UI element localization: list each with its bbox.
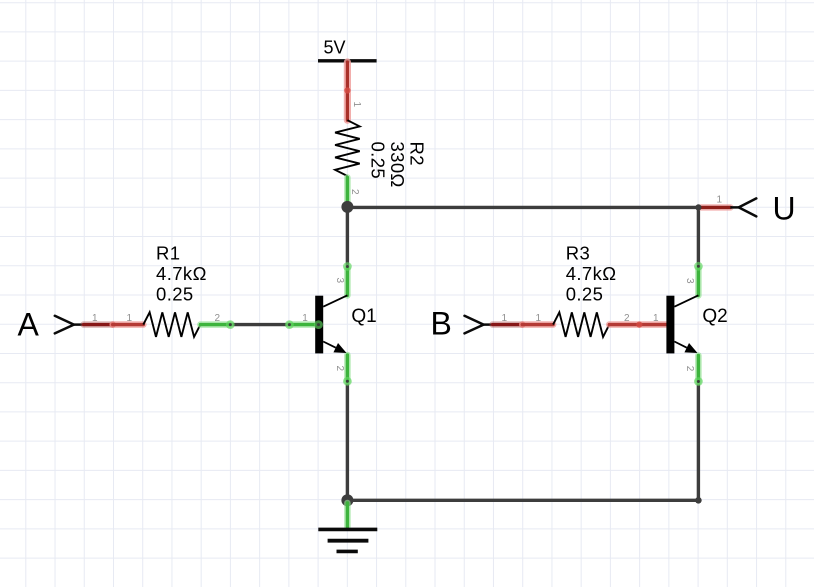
svg-text:1: 1 — [536, 313, 542, 324]
svg-text:U: U — [773, 191, 796, 227]
svg-text:1: 1 — [717, 194, 723, 205]
svg-text:330Ω: 330Ω — [387, 142, 408, 188]
svg-text:R3: R3 — [566, 243, 590, 264]
svg-text:B: B — [431, 306, 452, 342]
svg-text:0.25: 0.25 — [566, 284, 604, 305]
svg-text:A: A — [18, 307, 40, 343]
svg-text:2: 2 — [684, 366, 695, 372]
svg-text:1: 1 — [653, 313, 659, 324]
svg-text:R1: R1 — [156, 243, 180, 264]
svg-text:2: 2 — [334, 366, 345, 372]
svg-text:2: 2 — [349, 189, 360, 195]
svg-text:3: 3 — [684, 278, 695, 284]
svg-text:1: 1 — [92, 313, 98, 324]
svg-text:1: 1 — [127, 313, 133, 324]
svg-text:R2: R2 — [407, 142, 428, 166]
svg-text:2: 2 — [624, 313, 630, 324]
svg-text:2: 2 — [215, 313, 221, 324]
svg-text:Q1: Q1 — [351, 306, 376, 327]
svg-text:0.25: 0.25 — [156, 284, 194, 305]
svg-text:0.25: 0.25 — [367, 142, 388, 180]
svg-text:Q2: Q2 — [702, 306, 727, 327]
svg-text:4.7kΩ: 4.7kΩ — [156, 263, 207, 284]
svg-text:1: 1 — [502, 313, 508, 324]
svg-text:4.7kΩ: 4.7kΩ — [566, 263, 617, 284]
svg-text:3: 3 — [334, 278, 345, 284]
svg-text:5V: 5V — [324, 38, 346, 58]
svg-text:1: 1 — [351, 102, 362, 108]
